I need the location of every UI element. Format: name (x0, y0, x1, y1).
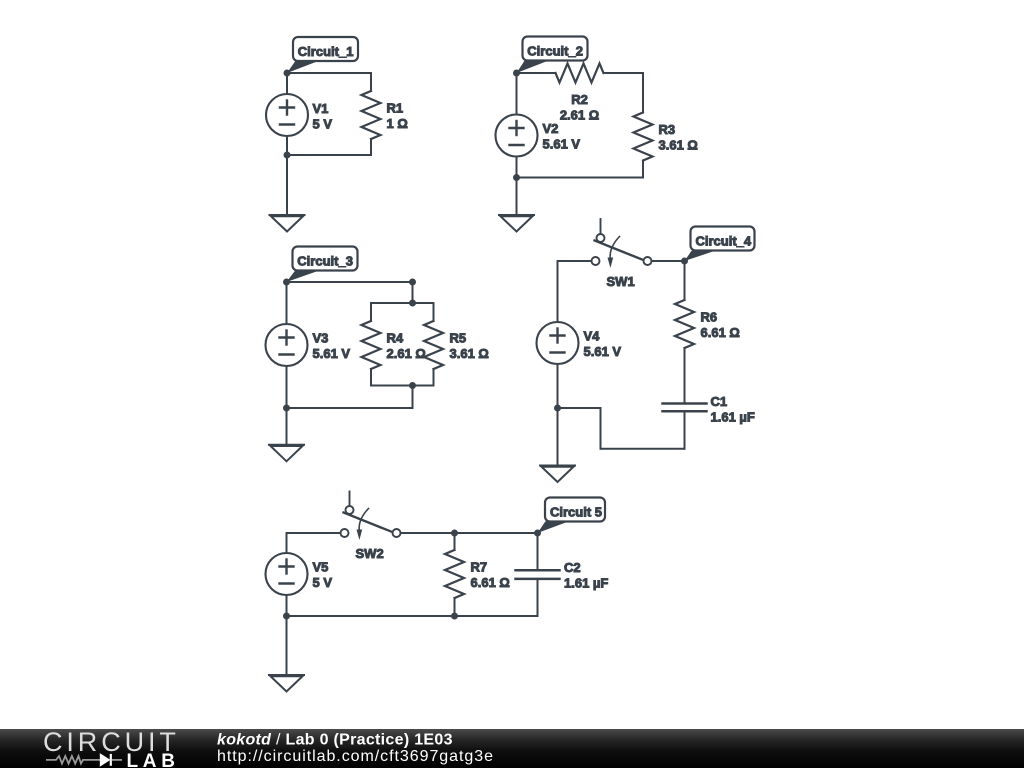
svg-text:http://circuitlab.com/cft3697g: http://circuitlab.com/cft3697gatg3e (217, 748, 494, 765)
svg-text:R2: R2 (571, 92, 588, 107)
svg-text:1.61 µF: 1.61 µF (564, 576, 608, 591)
label Circuit_3 flag (287, 247, 358, 283)
svg-text:SW1: SW1 (607, 274, 635, 289)
svg-text:Circuit_2: Circuit_2 (527, 44, 583, 59)
node junction parallel bottom (409, 382, 416, 389)
wire R1 bottom lead (370, 139, 372, 155)
node junction top-left circuit 1 (284, 70, 291, 77)
svg-text:Circuit_4: Circuit_4 (696, 234, 752, 249)
wire node to R2 (517, 72, 556, 74)
wire R1 top lead (370, 73, 372, 91)
svg-text:Circuit 5: Circuit 5 (550, 505, 602, 520)
svg-text:1 Ω: 1 Ω (387, 116, 408, 131)
switch SW2 (341, 492, 401, 562)
svg-text:SW2: SW2 (356, 546, 384, 561)
wire V4 bottom lead (557, 364, 559, 408)
wire C2 bottom lead (537, 579, 539, 616)
node junction bottom circuit 5 (283, 613, 290, 620)
wire parallel bottom rail (371, 385, 434, 387)
svg-text:LAB: LAB (127, 751, 180, 768)
svg-text:2.61 Ω: 2.61 Ω (560, 107, 599, 122)
wire ground stem circuit 5 (286, 616, 288, 675)
ground circuit 1 (270, 215, 305, 232)
wire V5 bottom lead (286, 595, 288, 616)
wire R5 top lead (433, 303, 435, 321)
wire parallel top rail (371, 302, 434, 304)
label Circuit_4 flag (685, 227, 755, 262)
node junction top-left circuit 3 (283, 279, 290, 286)
ground circuit 5 (269, 675, 304, 692)
wire left of SW2 (287, 532, 341, 534)
node junction R7 bottom (451, 613, 458, 620)
wire V1 bottom lead (286, 136, 288, 155)
capacitor C2 1.61 uF (516, 560, 609, 590)
svg-text:R6: R6 (701, 310, 718, 325)
resistor R4 2.61 ohm (362, 321, 426, 369)
wire C2 top lead (537, 533, 539, 570)
wire bottom rail circuit 3 (287, 407, 413, 409)
voltage source V3 (266, 324, 351, 366)
wire V1 top lead (286, 73, 288, 95)
footer bar (0, 729, 1024, 768)
resistor R1 1 ohm (362, 91, 408, 139)
logo resistor-diode glyph (46, 754, 122, 766)
voltage source V5 (266, 553, 333, 595)
node junction bottom circuit 4 (554, 405, 561, 412)
wire R4 top lead (370, 303, 372, 321)
svg-text:C2: C2 (564, 560, 581, 575)
node junction R7 top (451, 530, 458, 537)
svg-text:3.61 Ω: 3.61 Ω (450, 346, 489, 361)
svg-text:1.61 µF: 1.61 µF (711, 409, 755, 424)
node junction bottom circuit 2 (513, 174, 520, 181)
wire V2 top lead (516, 73, 518, 115)
ground circuit 2 (499, 215, 534, 232)
svg-text:5 V: 5 V (313, 575, 333, 590)
wire R6 top lead (684, 261, 686, 300)
svg-text:C1: C1 (711, 394, 728, 409)
wire V4 top lead (557, 261, 559, 322)
svg-text:R7: R7 (471, 560, 488, 575)
wire R4 bottom lead (370, 369, 372, 386)
wire R7 bottom lead (454, 598, 456, 616)
svg-text:kokotd / Lab 0 (Practice) 1E03: kokotd / Lab 0 (Practice) 1E03 (217, 732, 453, 749)
wire bottom rail circuit 1 (287, 154, 371, 156)
voltage source V2 (496, 115, 581, 157)
wire R3 top lead (642, 73, 644, 113)
resistor R7 6.61 ohm (445, 550, 510, 598)
wire parallel pair down to bottom rail (412, 386, 414, 409)
wire R3 bottom lead (642, 161, 644, 178)
wire ground stem circuit 2 (516, 178, 518, 216)
wire right of SW2 (401, 532, 538, 534)
resistor R5 3.61 ohm (424, 321, 489, 369)
svg-text:V5: V5 (313, 560, 329, 575)
svg-text:V1: V1 (313, 101, 329, 116)
wire V2 bottom lead (516, 157, 518, 178)
wire ground stem circuit 3 (286, 408, 288, 445)
wire ground stem circuit 4 (557, 408, 559, 466)
svg-text:2.61 Ω: 2.61 Ω (387, 346, 426, 361)
svg-text:Circuit_1: Circuit_1 (298, 44, 354, 59)
wire V3 top lead (286, 282, 288, 324)
node junction top circuit 4 (681, 258, 688, 265)
switch SW1 (592, 219, 652, 289)
svg-text:5.61 V: 5.61 V (543, 137, 581, 152)
wire R6 to C1 (684, 348, 686, 404)
wire C1 bottom lead (684, 411, 686, 449)
wire R2 to top-right corner (604, 72, 644, 74)
svg-text:Circuit_3: Circuit_3 (297, 254, 353, 269)
wire to V4 bottom node (558, 407, 601, 409)
wire top rail circuit 1 (287, 72, 371, 74)
node junction bottom circuit 1 (284, 152, 291, 159)
svg-text:V4: V4 (584, 329, 601, 344)
svg-text:5 V: 5 V (313, 116, 333, 131)
label Circuit_2 flag (517, 37, 588, 74)
wire V3 bottom lead (286, 366, 288, 408)
svg-text:R1: R1 (387, 101, 404, 116)
svg-text:5.61 V: 5.61 V (584, 344, 622, 359)
wire bottom rail circuit 2 (517, 177, 644, 179)
wire R7 top lead (454, 533, 456, 550)
capacitor C1 1.61 uF (663, 394, 755, 424)
svg-text:R4: R4 (387, 331, 404, 346)
wire left of SW1 (558, 260, 592, 262)
node junction C2 top (534, 530, 541, 537)
wire ground stem circuit 1 (286, 155, 288, 215)
wire bottom jog vertical (600, 408, 602, 449)
svg-text:V2: V2 (543, 121, 559, 136)
ground circuit 3 (269, 445, 304, 462)
node junction top-right circuit 3 (409, 279, 416, 286)
wire top rail circuit 3 (287, 281, 413, 283)
wire bottom rail circuit 5 (287, 615, 538, 617)
svg-text:6.61 Ω: 6.61 Ω (701, 325, 740, 340)
svg-text:V3: V3 (313, 331, 329, 346)
voltage source V4 (537, 322, 622, 364)
label Circuit 5 flag (538, 498, 606, 534)
svg-text:R5: R5 (450, 331, 467, 346)
voltage source V1 (266, 94, 332, 136)
node junction bottom circuit 3 (283, 405, 290, 412)
resistor R6 6.61 ohm (675, 300, 740, 348)
svg-text:5.61 V: 5.61 V (313, 346, 351, 361)
resistor R3 3.61 ohm (634, 113, 698, 161)
resistor R2 2.61 ohm (horizontal) (556, 64, 604, 123)
wire V5 top lead (286, 533, 288, 553)
node junction top circuit 2 (513, 70, 520, 77)
wire R5 bottom lead (433, 369, 435, 386)
label Circuit_1 flag (287, 37, 358, 73)
ground circuit 4 (540, 466, 575, 483)
wire feed down to parallel pair (412, 282, 414, 303)
svg-text:6.61 Ω: 6.61 Ω (471, 575, 510, 590)
svg-text:R3: R3 (659, 122, 676, 137)
wire bottom jog horizontal (601, 448, 685, 450)
svg-text:3.61 Ω: 3.61 Ω (659, 138, 698, 153)
wire right of SW1 (652, 260, 685, 262)
node junction parallel top (409, 300, 416, 307)
